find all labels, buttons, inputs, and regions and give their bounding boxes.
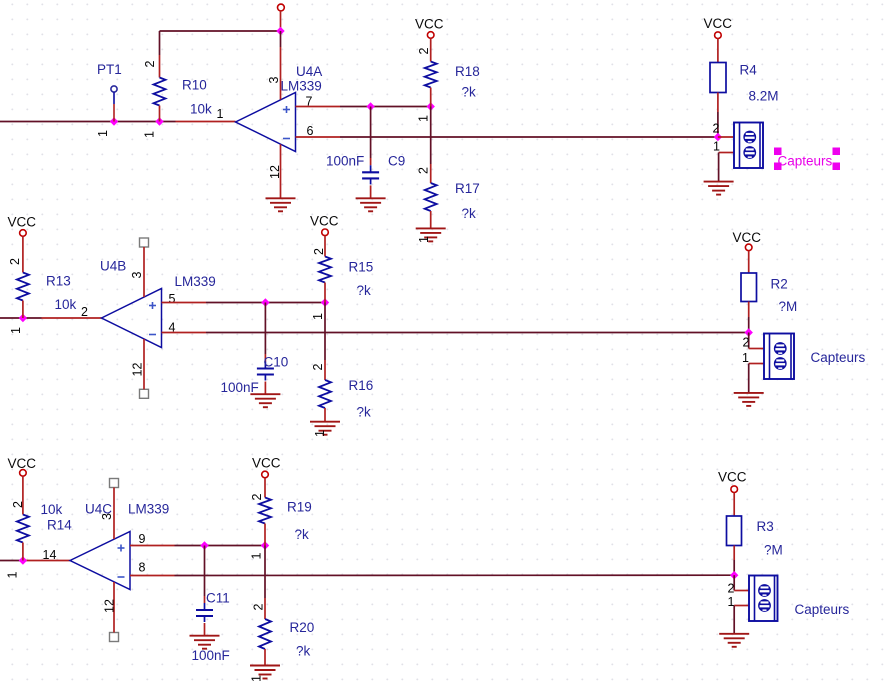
wire net minus U4A row1 [296,136,718,138]
wire stub circle to rail [280,11,282,31]
power terminal VCC R15 [322,229,329,236]
node junction rail pin3 [276,27,284,35]
ground R17 [416,228,446,241]
node junction connector row2 [745,328,753,336]
op-amp U4B plus minus marks [149,302,156,335]
svg-text:R18: R18 [455,64,480,79]
node junction R14 on output net [19,556,27,564]
terminal square U4C pin12 [110,633,119,642]
resistor R16 [319,380,331,408]
wire connector pin2 row3 [734,575,749,590]
wire R10 pin1 to junction [159,106,161,122]
svg-text:3: 3 [100,513,114,520]
svg-text:?M: ?M [764,543,783,558]
node junction R13 on output net [19,314,27,322]
wire R16 pin1 to ground [324,408,326,422]
svg-text:14: 14 [43,548,57,562]
node junction connector row3 [730,571,738,579]
wire connector pin1 row2 [749,364,764,393]
wire connector pin1 row3 [734,606,749,634]
wire U4A pin12 to ground [280,144,282,198]
svg-text:R17: R17 [455,181,480,196]
wire net output U4A row1 [0,121,236,123]
svg-text:LM339: LM339 [128,502,169,517]
wire R20 pin1 to ground [264,649,266,666]
power terminal VCC R2 [745,244,752,251]
wire R2 to junction [748,302,750,333]
svg-text:1: 1 [143,131,157,138]
op-amp U4A [236,93,296,152]
svg-text:1: 1 [9,327,23,334]
svg-text:2: 2 [312,248,326,255]
svg-text:C9: C9 [388,154,405,169]
svg-text:R20: R20 [290,620,315,635]
node junction PT1 on output net [110,117,118,125]
power terminal VCC R19 [262,471,269,478]
resistor R10 [154,78,166,106]
node junction R15 R16 divider [321,298,329,306]
svg-text:1: 1 [250,553,264,560]
power terminal VCC R3 [731,486,738,493]
wire C10 vertical [264,303,266,395]
svg-text:Capteurs: Capteurs [778,154,833,169]
svg-text:12: 12 [131,363,145,377]
node junction R18 R17 divider [427,102,435,110]
wire R3 to junction [733,546,735,576]
svg-text:6: 6 [307,124,314,138]
power terminal VCC R18 [427,32,434,39]
resistor R18 [425,62,437,88]
svg-text:LM339: LM339 [175,274,216,289]
wire junction to R17 [430,107,432,184]
svg-text:12: 12 [268,165,282,179]
svg-text:LM339: LM339 [281,79,322,94]
op-amp U4B [102,289,162,348]
svg-text:R4: R4 [740,63,758,78]
svg-text:R13: R13 [46,274,71,289]
node junction C10 tap [261,298,269,306]
resistor R17 [425,183,437,211]
wire VCC to R14 [22,476,24,514]
svg-text:1: 1 [217,107,224,121]
power terminal VCC R13 [20,230,27,237]
ground C11 [190,636,220,649]
svg-text:8.2M: 8.2M [749,89,779,104]
svg-text:1: 1 [96,130,110,137]
svg-text:?k: ?k [462,85,477,100]
wire R19 pin1 to junction [264,524,266,546]
svg-text:?k: ?k [357,283,372,298]
wire connector pin2 row1 [718,136,734,138]
svg-text:2: 2 [143,61,157,68]
svg-text:R16: R16 [349,378,374,393]
wire connector pin1 row1 [719,153,734,182]
svg-text:2: 2 [8,258,22,265]
wire U4C pin3 [113,488,115,540]
svg-text:3: 3 [130,272,144,279]
ground C10 [250,394,280,407]
svg-text:R10: R10 [182,78,207,93]
connector Capteurs row3 [749,576,778,622]
wire R4 to junction [717,93,719,138]
resistor R14 [17,515,29,543]
svg-text:?k: ?k [462,206,477,221]
svg-text:VCC: VCC [252,456,281,471]
svg-text:1: 1 [6,572,20,579]
wire R14 pin1 to junction [22,543,24,561]
connector Capteurs row2 [764,334,794,380]
svg-text:R2: R2 [771,277,788,292]
svg-text:1: 1 [417,115,431,122]
svg-text:1: 1 [728,595,735,609]
wire net plus U4B row2 [162,302,326,304]
svg-text:1: 1 [742,351,749,365]
op-amp U4C [70,532,130,590]
resistor R13 [17,273,29,301]
wire net plus U4C row3 [130,545,265,547]
svg-text:8: 8 [139,561,146,575]
svg-text:2: 2 [728,582,735,596]
wire VCC to R18 [430,38,432,61]
svg-text:2: 2 [252,604,266,611]
wire U4C pin12 [113,582,115,633]
wire R13 pin1 to junction [22,301,24,319]
wire net output U4C row3 [0,560,70,562]
svg-text:9: 9 [139,532,146,546]
svg-text:VCC: VCC [8,215,37,230]
svg-text:100nF: 100nF [221,380,259,395]
wire C9 vertical [370,107,372,199]
resistor R4 box [710,63,726,93]
svg-text:Capteurs: Capteurs [811,350,866,365]
op-amp U4C plus minus marks [118,545,125,578]
svg-text:R3: R3 [757,519,774,534]
svg-text:U4A: U4A [296,64,322,79]
power terminal VCC R14 [20,470,27,477]
resistor R2 box [741,273,757,302]
resistor R3 box [727,516,742,546]
svg-text:2: 2 [11,501,25,508]
wire R17 pin1 to ground [430,211,432,228]
svg-text:C11: C11 [206,591,230,606]
wire VCC to R2 [748,251,750,273]
svg-text:?k: ?k [296,644,311,659]
node junction R10 on output net [155,117,163,125]
terminal square U4B pin12 [140,389,149,398]
wire net minus U4B row2 [162,332,749,334]
ground connector row2 [734,393,764,406]
svg-text:1: 1 [713,140,720,154]
power terminal circle top [278,4,285,11]
svg-text:VCC: VCC [704,16,733,31]
svg-text:C10: C10 [264,355,289,370]
svg-text:R15: R15 [349,260,374,275]
svg-text:2: 2 [713,122,720,136]
wire VCC to R3 [733,493,735,517]
wire VCC to R4 [717,39,719,63]
wire C11 vertical [204,546,206,636]
svg-text:1: 1 [313,430,327,437]
wire VCC rail top row1 [160,31,281,78]
svg-text:10k: 10k [190,102,212,117]
label Capteurs row1 selected [774,148,840,171]
svg-text:100nF: 100nF [192,648,230,663]
terminal square U4C pin3 [110,479,119,488]
svg-text:?M: ?M [779,299,798,314]
wire VCC to R13 [22,236,24,272]
wire net minus U4C row3 [130,574,734,576]
svg-text:2: 2 [311,364,325,371]
wire VCC to R15 [324,236,326,257]
ground connector row3 [719,634,749,647]
svg-text:U4B: U4B [100,259,126,274]
svg-text:12: 12 [103,599,117,613]
wire net plus U4A row1 [296,106,431,108]
wire junction to R16 [324,303,326,381]
wire U4B pin3 [143,247,145,297]
svg-text:2: 2 [417,167,431,174]
wire net output U4B row2 [0,317,102,319]
svg-text:1: 1 [311,313,325,320]
node junction C11 tap [200,541,208,549]
power terminal VCC R4 [715,32,722,39]
node junction C9 tap [366,102,374,110]
capacitor C9 [362,165,379,184]
wire R18 pin1 to junction [430,88,432,107]
wire junction to R20 [264,546,266,620]
svg-text:?k: ?k [357,405,372,420]
ground C9 [356,198,386,211]
svg-text:5: 5 [169,292,176,306]
ground R20 [250,666,280,679]
svg-text:2: 2 [250,494,264,501]
svg-text:VCC: VCC [8,456,37,471]
svg-text:VCC: VCC [718,470,747,485]
svg-text:2: 2 [81,305,88,319]
resistor R15 [319,257,331,283]
wire U4B pin12 [143,339,145,389]
svg-text:10k: 10k [41,502,63,517]
capacitor C11 [196,603,213,622]
wire connector pin2 row2 [749,333,764,349]
node junction R19 R20 divider [261,541,269,549]
ground connector row1 [704,182,734,195]
svg-text:1: 1 [250,675,264,682]
svg-text:PT1: PT1 [97,62,122,77]
ground U4A pin12 [266,198,296,211]
wire R15 pin1 to junction [324,283,326,303]
svg-text:VCC: VCC [733,230,762,245]
svg-text:R14: R14 [47,518,72,533]
svg-text:2: 2 [417,48,431,55]
connector Capteurs row1 [734,123,763,169]
svg-text:VCC: VCC [415,17,444,32]
svg-text:1: 1 [417,236,431,243]
op-amp U4A plus minus marks [283,106,290,139]
svg-text:?k: ?k [295,527,310,542]
svg-text:100nF: 100nF [326,154,364,169]
svg-text:2: 2 [743,336,750,350]
svg-text:Capteurs: Capteurs [795,602,850,617]
resistor R19 [259,498,271,524]
wire U4A pin3 vertical [280,31,282,100]
svg-text:VCC: VCC [310,214,339,229]
svg-text:10k: 10k [55,297,77,312]
terminal square U4B pin3 [140,238,149,247]
svg-text:3: 3 [267,77,281,84]
node junction connector row1 [714,133,722,141]
wire VCC to R19 [264,478,266,498]
terminal PT1 [111,86,117,122]
svg-text:R19: R19 [287,500,312,515]
resistor R20 [259,619,271,649]
capacitor C10 [257,362,274,381]
ground R16 [310,422,340,435]
